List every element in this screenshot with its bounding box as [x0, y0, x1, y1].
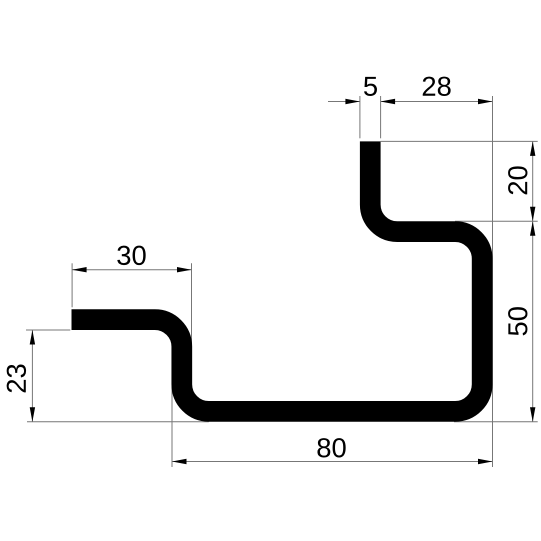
dimension text 80 — [317, 438, 345, 457]
dimension text 20 (rotated) — [508, 166, 527, 194]
arrowhead dim 23 top (pointing up) — [30, 330, 35, 345]
dimension line 23 (vertical, x=32.4) — [31, 330, 33, 422]
extension line left of dim 5 (vertical, x=359.9) — [359, 96, 361, 138]
extension line bottom left (horizontal, y=421.7) — [27, 421, 209, 423]
extension line top of dim 20 (horizontal, y=141.4) — [381, 140, 538, 142]
arrowhead dim 80 left (pointing left) — [172, 459, 187, 464]
arrowhead dim 30 left (pointing left) — [72, 267, 87, 272]
leader line of dim 5 (horizontal, y=101.5) — [328, 101, 360, 103]
arrowhead dim 5 left (pointing right) — [345, 99, 360, 104]
arrowhead dim 50 top (pointing up) — [530, 221, 535, 236]
arrowhead dim 30 right (pointing right) — [177, 267, 192, 272]
extension line between dims 20 and 50 (horizontal, y=221.3) — [455, 220, 538, 222]
dimension line 20 and 50 (vertical, x=532.7) — [532, 141, 534, 421]
arrowhead dim 28 right (pointing right) — [478, 99, 493, 104]
dimension text 28 — [423, 77, 451, 96]
arrowhead dim 28 left / dim 5 right (pointing left) — [381, 99, 396, 104]
extension line right of dim 30 (vertical, x=191.5) — [191, 263, 193, 344]
dimension text 30 — [117, 246, 145, 265]
extension line top of dim 23 (horizontal, y=330) — [26, 329, 70, 331]
arrowhead dim 50 bottom (pointing down) — [530, 407, 535, 422]
extension line bottom right (horizontal, y=421.7) — [454, 421, 538, 423]
dimension text 50 (rotated) — [508, 307, 527, 335]
arrowhead dim 20 top (pointing up) — [530, 141, 535, 156]
extension line left of dim 30 (vertical, x=72.1) — [71, 263, 73, 307]
arrowhead dim 20 bottom (pointing down) — [530, 207, 535, 222]
dimension line 28 (horizontal, y=101.5) — [381, 101, 493, 103]
extension line right outer edge (vertical, x=492.5, shared by dims 28/20/50/80) — [492, 96, 494, 467]
dimension text 5 — [364, 77, 377, 96]
arrowhead dim 23 bottom (pointing down) — [30, 407, 35, 422]
dimension text 23 (rotated) — [7, 364, 26, 392]
sheet-metal profile outline (thick black bent section) — [72, 141, 483, 411]
extension line left of dim 80 (vertical, x=172) — [171, 384, 173, 467]
dimension line 30 (horizontal, y=269.7) — [72, 269, 191, 271]
dimension line 80 (horizontal, y=461.5) — [172, 461, 493, 463]
extension line right of dim 5 (vertical, x=380.6) — [380, 96, 382, 138]
arrowhead dim 80 right (pointing right) — [478, 459, 493, 464]
